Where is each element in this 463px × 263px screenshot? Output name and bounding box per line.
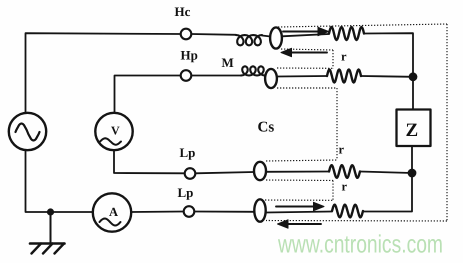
svg-text:r: r: [339, 143, 345, 157]
wire Hc center conductor to resistor: [282, 34, 329, 36]
wire Lc center conductor to resistor: [266, 212, 332, 213]
node ground junction: [47, 208, 54, 215]
wire Hp center conductor to resistor: [277, 75, 327, 78]
svg-text:r: r: [342, 180, 348, 194]
wire Hc terminal to coil: [191, 33, 236, 36]
coax shield end Lc (oval): [254, 199, 265, 221]
ground: [50, 212, 52, 243]
wire Lc terminal to coax: [194, 211, 254, 213]
resistor r2: [327, 70, 361, 83]
svg-text:A: A: [109, 205, 118, 219]
ammeter A: [93, 193, 131, 231]
svg-text:V: V: [111, 124, 120, 138]
wire r1 to right bus: [364, 33, 413, 110]
inductor M upper coil: [236, 35, 262, 45]
sine mark in ammeter: [100, 219, 121, 226]
inductor M lower coil: [241, 66, 265, 75]
shield dotted Lc upper: [265, 199, 333, 201]
sine mark in voltmeter: [100, 138, 121, 144]
wire Hp from voltmeter: [115, 76, 181, 113]
current arrow Lc forward: [276, 206, 315, 208]
wire coil to coax Hc: [262, 36, 271, 37]
wire Z bottom to bus: [363, 146, 412, 212]
svg-text:Lp: Lp: [180, 145, 196, 160]
resistor r4: [332, 205, 363, 218]
shield dotted link Lp-Lc: [332, 181, 334, 201]
svg-text:M: M: [222, 55, 234, 70]
svg-text:Hc: Hc: [175, 4, 191, 19]
shield dotted Lp upper: [266, 160, 337, 161]
sine mark in source: [16, 124, 40, 141]
shield dotted Hc lower: [281, 49, 333, 50]
terminal Hc: [181, 29, 192, 40]
wire coil2 to coax Hp: [265, 75, 267, 77]
terminal Lp: [185, 168, 196, 179]
shield dotted Hp upper: [277, 67, 333, 69]
shield dotted link Hc-Hp: [332, 50, 334, 68]
DUT Z box: [397, 110, 431, 147]
wire Lp center conductor to resistor: [266, 171, 329, 173]
svg-text:Hp: Hp: [181, 48, 198, 63]
resistor r1: [329, 27, 364, 40]
coax shield end Lp (oval): [254, 162, 266, 180]
wire r2 to node: [361, 75, 413, 78]
wire voltmeter to Lp terminal: [114, 150, 185, 173]
svg-text:Lp: Lp: [178, 185, 194, 200]
wire Hp terminal to coil2: [191, 75, 241, 77]
current arrow Hc return: [291, 52, 327, 54]
shield dotted bottom to Lc coax: [266, 220, 447, 223]
current arrow Hc forward: [283, 31, 319, 33]
svg-text:Z: Z: [406, 120, 419, 141]
svg-text:r: r: [341, 50, 347, 64]
shield dotted Hp lower: [277, 87, 337, 89]
voltmeter V: [95, 113, 132, 150]
shield dotted right vertical: [446, 24, 448, 221]
wire r3 to node: [360, 172, 412, 174]
resistor r3: [329, 165, 360, 178]
shield dotted Lp lower: [266, 179, 333, 182]
coax shield end Hp (oval): [265, 69, 277, 88]
node junction Lp-bus: [408, 169, 417, 178]
svg-text:Cs: Cs: [258, 120, 275, 136]
wire Lp terminal to coax: [195, 172, 254, 173]
coax shield end Hc (oval): [270, 27, 282, 48]
shield dotted top Hc to right loop: [278, 24, 447, 27]
oscillator source OSC: [9, 113, 46, 150]
wire source bottom to ground node: [26, 150, 94, 212]
terminal Hp: [181, 70, 192, 81]
wire ammeter to Lc terminal: [131, 211, 183, 214]
current arrow Lc return: [288, 223, 322, 225]
node junction Hp-bus: [409, 72, 418, 81]
wire top from source to Hc terminal: [26, 33, 181, 113]
svg-text:www.cntronics.com: www.cntronics.com: [277, 231, 443, 259]
shield dotted link Hp-Lp: [336, 88, 338, 160]
terminal Lc: [184, 206, 195, 217]
